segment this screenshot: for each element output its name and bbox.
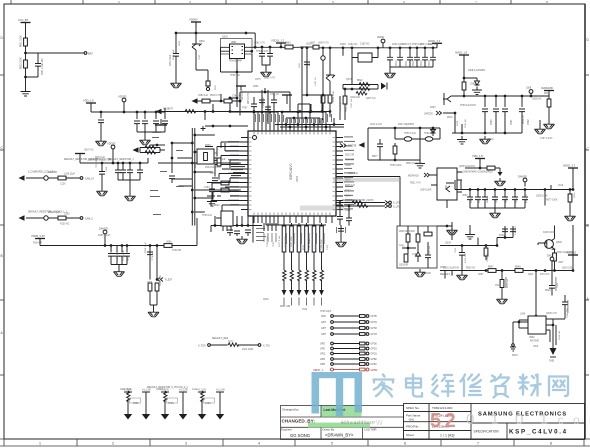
signal arrow — [192, 98, 198, 104]
border zone numbers bottom — [39, 442, 552, 446]
svg-text:D532 0.1uF: D532 0.1uF — [48, 212, 61, 214]
ground — [114, 269, 125, 277]
svg-text:Q595 100K: Q595 100K — [536, 196, 548, 198]
title block left table — [281, 406, 404, 440]
svg-text:C531 4.7K: C531 4.7K — [264, 78, 275, 80]
ground — [125, 193, 136, 201]
resistor R549 — [500, 280, 504, 288]
svg-text:FB28 0R: FB28 0R — [399, 231, 408, 233]
svg-text:C177 100K: C177 100K — [123, 250, 125, 261]
title block right table — [404, 404, 585, 440]
ground — [96, 138, 107, 146]
ground top-right — [539, 120, 541, 126]
svg-text:GATE29: GATE29 — [424, 113, 433, 116]
svg-text:C144: C144 — [106, 166, 108, 172]
signal WDATA — [424, 173, 431, 177]
svg-text:FB24: FB24 — [487, 197, 489, 203]
connector J500 — [221, 211, 233, 226]
svg-text:GPH0: GPH0 — [371, 316, 378, 318]
svg-text:FB04 22pF: FB04 22pF — [145, 242, 147, 253]
svg-text:R114: R114 — [345, 210, 351, 212]
svg-text:Q524: Q524 — [263, 299, 269, 301]
svg-text:DEFAULT_RESISTOR_22XXX: DEFAULT_RESISTOR_22XXX — [342, 199, 374, 202]
svg-text:C104 22pF: C104 22pF — [321, 239, 323, 250]
power flag AVDD33R — [568, 168, 578, 173]
svg-text:FB31 33R: FB31 33R — [280, 306, 291, 308]
dvdd bus bottom-left — [35, 239, 45, 244]
left arrow long wire — [147, 158, 149, 163]
transistor Q504 — [446, 183, 454, 192]
resistor R152 — [155, 283, 159, 291]
svg-text:0 1 0 1: 0 1 0 1 — [466, 411, 554, 428]
capacitor bank C545-51 — [467, 197, 473, 200]
svg-text:R577 100R: R577 100R — [285, 236, 287, 247]
wire loop below regulator — [221, 47, 253, 112]
svg-text:Q528 4.7K: Q528 4.7K — [546, 313, 557, 315]
svg-text:GG SONG: GG SONG — [290, 433, 310, 438]
svg-text:X_TDO: X_TDO — [198, 346, 206, 348]
svg-text:R518: R518 — [512, 355, 518, 357]
capacitor C802 — [175, 56, 177, 80]
component value labels — [33, 37, 574, 406]
svg-text:C541: C541 — [511, 119, 513, 125]
svg-text:VDD33: VDD33 — [118, 95, 127, 99]
svg-text:DAVDD: DAVDD — [518, 175, 527, 179]
svg-text:R500: R500 — [214, 205, 220, 207]
svg-text:R560 1%: R560 1% — [523, 115, 525, 124]
svg-text:TP97: TP97 — [345, 191, 351, 193]
svg-text:C: C — [587, 147, 590, 151]
svg-text:CHANGED_BY:: CHANGED_BY: — [282, 419, 316, 424]
capacitor C560 — [425, 255, 431, 258]
svg-text:U586: U586 — [166, 242, 172, 244]
svg-text:R547: R547 — [488, 267, 494, 269]
capacitor C804 — [267, 54, 273, 57]
wire to U502 — [519, 280, 536, 328]
svg-text:L505: L505 — [147, 282, 153, 284]
resistor R801 — [24, 38, 28, 46]
svg-text:TP38: TP38 — [168, 403, 174, 405]
resistor R122 — [217, 158, 221, 166]
svg-text:Changed by: Changed by — [282, 408, 299, 412]
rc pair C — [197, 390, 225, 420]
svg-text:GPB1: GPB1 — [371, 364, 378, 366]
svg-text:R567: R567 — [215, 84, 217, 90]
capacitor C121 — [214, 158, 220, 161]
power flag VDD_1.8A — [86, 103, 96, 108]
svg-text:6: 6 — [404, 442, 406, 446]
svg-text:L565 100K: L565 100K — [291, 236, 293, 247]
wire battery branch — [26, 27, 85, 88]
capacitor C106 — [98, 120, 104, 123]
svg-text:3: 3 — [185, 442, 187, 446]
svg-text:D585 18pF: D585 18pF — [173, 49, 175, 60]
svg-text:TP28 0R: TP28 0R — [172, 250, 181, 252]
capacitor C122 — [212, 178, 218, 181]
border zone letters left — [1, 36, 4, 335]
svg-text:-SA): -SA) — [408, 418, 414, 422]
transistor Q505 — [545, 240, 554, 249]
svg-text:VDD33: VDD33 — [107, 142, 116, 146]
svg-text:5: 5 — [332, 0, 334, 4]
svg-text:C182 NC: C182 NC — [360, 44, 370, 46]
svg-text:L501: L501 — [309, 60, 311, 66]
capacitor C123 — [169, 176, 175, 179]
IC U500 body — [248, 131, 336, 216]
right bus drops — [445, 225, 573, 279]
svg-text:VDD5V: VDD5V — [189, 18, 198, 22]
bottom pin jog wires — [266, 224, 326, 226]
svg-text:X_TDI: X_TDI — [263, 346, 270, 348]
svg-text:D506: D506 — [179, 40, 181, 46]
resistor R511 — [328, 95, 332, 103]
power flag VDD33 — [111, 145, 115, 153]
U502 wiring left — [513, 322, 528, 345]
svg-text:PGND: PGND — [424, 273, 431, 275]
svg-text:C536 1%: C536 1% — [156, 389, 165, 391]
power flag VDD11_1.2 — [276, 43, 286, 48]
rc pair B — [160, 390, 188, 420]
svg-text:L544 2.2uH: L544 2.2uH — [370, 124, 382, 126]
svg-text:R548: R548 — [515, 267, 521, 269]
below-IC cluster rail — [211, 216, 262, 243]
svg-text:AVDD_1.8: AVDD_1.8 — [455, 51, 468, 55]
resistor R515 — [343, 96, 347, 104]
svg-text:DEFAULT_C: DEFAULT_C — [440, 273, 453, 276]
svg-text:WDATA29: WDATA29 — [408, 175, 419, 178]
border zone letters right — [587, 38, 590, 301]
wire top rail — [176, 22, 255, 54]
svg-text:FB04 18pF: FB04 18pF — [340, 101, 342, 112]
capacitor C520 — [304, 62, 310, 65]
svg-text:Q538 0R: Q538 0R — [399, 265, 409, 267]
svg-text:R130 NC: R130 NC — [60, 224, 70, 226]
svg-text:KIA7042: KIA7042 — [530, 340, 540, 343]
svg-text:C575: C575 — [255, 79, 261, 81]
ground — [140, 137, 151, 145]
resistor R546 — [553, 253, 557, 261]
resistor R531 — [547, 99, 551, 107]
svg-text:Q551 10uF/16V: Q551 10uF/16V — [443, 268, 460, 270]
wire IC left fanout — [222, 143, 241, 213]
svg-text:L532: L532 — [302, 309, 308, 311]
bus to IC links — [172, 135, 241, 212]
svg-text:TP65 18pF: TP65 18pF — [320, 311, 332, 313]
svg-text:Q507 NC: Q507 NC — [84, 150, 94, 152]
power flag AVDD — [381, 39, 385, 47]
extra verticals to pins — [290, 92, 334, 125]
svg-text:U509: U509 — [516, 197, 518, 203]
resistor R543 — [404, 254, 408, 262]
svg-text:L596: L596 — [479, 197, 481, 203]
signal arrow — [156, 109, 162, 115]
svg-text:U801: U801 — [231, 42, 237, 44]
svg-text:C165: C165 — [64, 214, 70, 216]
capacitor bank C107-09 — [134, 121, 140, 124]
gpio jumper rows group2 — [320, 342, 378, 366]
wire top pin bundle left — [230, 112, 326, 124]
resistor loop cluster B — [133, 147, 139, 153]
svg-text:R119 100R: R119 100R — [160, 275, 162, 286]
arrow feed — [359, 142, 365, 148]
svg-text:52: 52 — [430, 410, 459, 432]
IC left pins — [241, 138, 248, 210]
svg-text:C580 1uF: C580 1uF — [198, 95, 209, 97]
resistor R548 — [515, 269, 523, 273]
border zone ticks top — [11, 0, 511, 4]
svg-text:Q574: Q574 — [346, 79, 352, 81]
IC left pin labels — [226, 141, 239, 205]
IC inner pin ticks top/bottom — [249, 132, 335, 215]
svg-text:GPH: GPH — [321, 334, 326, 336]
svg-text:GPD: GPD — [320, 349, 325, 351]
wire upper link — [205, 125, 248, 127]
svg-text:SPECIFICATION: SPECIFICATION — [474, 430, 500, 434]
bead FB101 — [44, 176, 48, 180]
R_EXT arrows — [158, 278, 164, 282]
resistor R519 — [357, 204, 368, 207]
wire mid bus — [155, 104, 240, 120]
capacitor bank C540-43 — [482, 109, 488, 112]
svg-text:C: C — [1, 146, 4, 150]
svg-text:6: 6 — [403, 0, 405, 4]
svg-text:Q590 10uF/16V: Q590 10uF/16V — [459, 166, 476, 168]
testpoint TP801 — [206, 81, 210, 86]
svg-text:CAM_C: CAM_C — [85, 218, 93, 221]
svg-text:TP74 1nF: TP74 1nF — [152, 251, 154, 261]
ferrite L508 — [358, 53, 372, 62]
diode D503 — [416, 252, 421, 262]
svg-text:4: 4 — [258, 442, 260, 446]
svg-text:C537 0R: C537 0R — [117, 252, 119, 261]
svg-text:U562: U562 — [462, 195, 468, 197]
svg-text:R_EXT: R_EXT — [165, 280, 173, 282]
svg-text:TP45 22pF: TP45 22pF — [267, 236, 269, 247]
svg-text:DEFAULT_RESISTOR_1: DEFAULT_RESISTOR_1 — [108, 158, 134, 161]
svg-text:R104 0R: R104 0R — [33, 243, 42, 245]
svg-text:C162 NC: C162 NC — [348, 44, 358, 46]
svg-text:GPB: GPB — [320, 364, 325, 366]
resistor R532 — [487, 166, 495, 170]
gpio red row — [313, 368, 378, 372]
svg-text:FB70 0R: FB70 0R — [345, 160, 354, 162]
svg-text:GND: GND — [549, 361, 554, 363]
power flag VDD5V — [191, 22, 201, 27]
gray band highlight — [300, 206, 344, 211]
resistor R802 — [24, 60, 28, 68]
svg-text:R138: R138 — [457, 120, 459, 126]
bead FB102 — [44, 216, 48, 220]
svg-text:TP00: TP00 — [455, 247, 457, 253]
wire dvdd feed — [196, 218, 198, 246]
svg-text:Q511: Q511 — [528, 274, 534, 276]
extended mid bus — [240, 111, 330, 113]
diode D501 — [475, 78, 480, 85]
svg-text:+V_3.3V: +V_3.3V — [179, 390, 188, 392]
power flag AVDD_3.3 — [432, 43, 442, 48]
capacitor C101 — [99, 172, 105, 175]
ground — [237, 236, 248, 244]
resistor pack RP52 — [297, 223, 302, 306]
svg-text:GPD: GPD — [320, 344, 325, 346]
ground — [207, 198, 217, 206]
resistor R547 — [488, 269, 496, 273]
cap-ground mid — [340, 225, 342, 235]
svg-text:FB21 4.7K: FB21 4.7K — [410, 183, 421, 185]
svg-text:U509 4.7K: U509 4.7K — [318, 43, 329, 45]
title green highlight cells — [322, 406, 362, 417]
wire vdd33 rail — [80, 158, 148, 172]
input row CAM — [19, 175, 25, 181]
svg-text:SPEC No.: SPEC No. — [406, 406, 420, 410]
svg-text:GPH2: GPH2 — [371, 328, 378, 330]
IC left side fanout wires — [207, 142, 241, 207]
left label dashes — [150, 132, 184, 215]
U502 wiring right — [546, 319, 556, 348]
svg-text:TP87: TP87 — [242, 108, 248, 110]
svg-text:R517: R517 — [372, 156, 378, 158]
svg-text:AVDD_3.3: AVDD_3.3 — [563, 164, 576, 168]
wire gpio bus — [195, 94, 240, 112]
svg-text:2: 2 — [118, 0, 120, 4]
svg-text:R801 100K: R801 100K — [21, 35, 23, 47]
svg-text:C133 1%: C133 1% — [515, 226, 517, 235]
gpio jumper rows group1 — [321, 315, 377, 337]
svg-text:VDD: VDD — [321, 316, 326, 318]
svg-text:R177 0.1uF: R177 0.1uF — [279, 235, 281, 247]
svg-text:B: B — [587, 224, 589, 228]
svg-text:TP59 0.1uF: TP59 0.1uF — [404, 133, 417, 135]
gray band label row — [333, 178, 399, 182]
power flag VCC_BAT — [21, 23, 31, 28]
svg-text:WRSTB: WRSTB — [348, 146, 357, 148]
svg-text:C514: C514 — [429, 60, 431, 66]
resistor R542 — [424, 232, 432, 236]
svg-text:R504 10uF/16V: R504 10uF/16V — [557, 252, 574, 254]
resistor R530 — [462, 82, 466, 90]
svg-text:Q801: Q801 — [199, 41, 205, 43]
svg-text:XRTCXTO: XRTCXTO — [248, 93, 250, 104]
svg-text:.: . — [587, 105, 588, 109]
svg-text:R512: R512 — [357, 80, 363, 82]
svg-text:FB88: FB88 — [133, 403, 139, 405]
svg-text:GPB0: GPB0 — [371, 359, 378, 361]
svg-text:PRO/File :: PRO/File : — [406, 425, 420, 429]
svg-text:L522 100R: L522 100R — [242, 349, 254, 351]
wire avdd18 — [451, 55, 549, 107]
resistor R522 — [224, 99, 232, 103]
wire cluster A rail — [91, 103, 165, 119]
svg-text:FB60 10uF/16V: FB60 10uF/16V — [406, 163, 423, 165]
svg-text:R108: R108 — [340, 44, 346, 46]
svg-text:D584 100R: D584 100R — [333, 91, 335, 102]
regulator U801 — [230, 44, 245, 59]
U501 box — [437, 168, 457, 200]
svg-text:AVDD_3.3: AVDD_3.3 — [428, 39, 441, 43]
resistor R510 — [321, 95, 325, 103]
ground — [497, 296, 508, 304]
svg-text:DEFAULT_RES: DEFAULT_RES — [212, 337, 229, 340]
IC top pin labels — [255, 114, 332, 123]
svg-text:Sheet: Sheet — [406, 433, 414, 437]
resistor R533 — [568, 194, 572, 202]
svg-text:GPB: GPB — [320, 359, 325, 361]
svg-text:GPQ1: GPQ1 — [371, 354, 378, 356]
wire right mid rail — [440, 226, 513, 253]
svg-text:C540: C540 — [491, 119, 493, 125]
svg-text:Q505: Q505 — [297, 241, 299, 247]
watermark logo icon — [312, 372, 363, 416]
wire y92 — [240, 88, 290, 101]
svg-text:U507: U507 — [478, 274, 484, 276]
svg-text:U513: U513 — [306, 44, 312, 46]
svg-text:AVDD18D: AVDD18D — [541, 86, 553, 90]
net label block — [231, 166, 245, 176]
capacitor C561 — [459, 253, 465, 256]
svg-text:C135 18pF: C135 18pF — [263, 97, 265, 108]
ground — [97, 188, 108, 196]
capacitor C801 — [35, 64, 41, 67]
svg-text:Q539: Q539 — [445, 243, 451, 245]
svg-text:C512: C512 — [413, 60, 415, 66]
resistor R106 — [145, 151, 156, 154]
wire box top link — [437, 226, 452, 240]
svg-text:GPB2: GPB2 — [371, 368, 378, 372]
svg-text:TP41: TP41 — [399, 246, 405, 248]
watermark gray url text — [341, 411, 590, 428]
resistor R521 — [202, 99, 210, 103]
svg-text:A: A — [587, 297, 590, 301]
svg-text:R172 1%: R172 1% — [540, 274, 549, 276]
ground — [457, 272, 468, 280]
svg-text:R138 100R: R138 100R — [543, 232, 555, 234]
svg-text:Q527 1%: Q527 1% — [366, 98, 376, 100]
svg-text:R153: R153 — [430, 107, 436, 109]
ground — [21, 88, 31, 96]
extra bottom-right detail — [470, 225, 478, 246]
svg-text:C589: C589 — [470, 84, 476, 86]
svg-text:C509 100K: C509 100K — [420, 190, 432, 192]
svg-text:C581 4.7K: C581 4.7K — [254, 43, 265, 45]
svg-text:U502: U502 — [529, 337, 535, 339]
svg-text:R174 10K: R174 10K — [465, 253, 467, 263]
svg-text:7: 7 — [477, 442, 479, 446]
svg-text:8: 8 — [546, 0, 548, 4]
svg-text:U509 1%: U509 1% — [402, 44, 411, 46]
svg-text:TP34: TP34 — [128, 255, 130, 261]
wire regulator bottom — [230, 67, 237, 112]
signal arrows right of IC — [340, 144, 346, 148]
labels cluster — [256, 228, 266, 241]
border side ticks — [0, 75, 589, 375]
left double bus — [192, 128, 195, 226]
power flag DAVDD2 — [103, 230, 107, 238]
inverted T flag — [160, 119, 162, 125]
svg-text:XEINT_1: XEINT_1 — [313, 368, 324, 372]
node BAT — [24, 52, 27, 55]
ground — [261, 69, 272, 77]
resistor R514 — [356, 92, 367, 95]
resistor R512 — [359, 83, 370, 86]
capacitor C130 — [227, 230, 233, 233]
svg-text:C150: C150 — [204, 187, 210, 189]
resistor R150 — [164, 244, 172, 248]
transistor Q502 — [326, 75, 335, 95]
svg-text:GPH3: GPH3 — [371, 334, 378, 336]
power flag C74 — [282, 95, 292, 100]
resistor R541 — [416, 234, 420, 242]
ground — [171, 80, 182, 88]
